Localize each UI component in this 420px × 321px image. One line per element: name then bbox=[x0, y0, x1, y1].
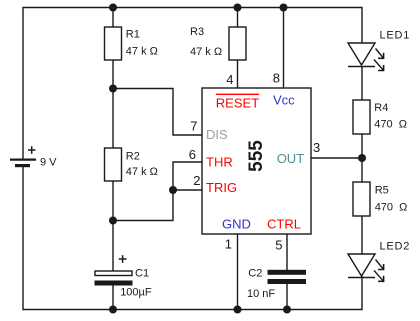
LED LED2 bbox=[348, 254, 384, 281]
svg-text:R1: R1 bbox=[126, 29, 140, 41]
node junction C1/bottom rail bbox=[109, 306, 117, 314]
resistor R3 bbox=[229, 27, 246, 60]
LED LED1 bbox=[348, 43, 384, 71]
svg-text:47 k Ω: 47 k Ω bbox=[126, 166, 158, 178]
svg-text:3: 3 bbox=[313, 140, 320, 155]
svg-text:LED2: LED2 bbox=[380, 241, 411, 253]
svg-text:8: 8 bbox=[273, 71, 280, 86]
svg-text:47 k Ω: 47 k Ω bbox=[190, 46, 222, 58]
node junction R1/R2/DIS bbox=[109, 85, 117, 93]
svg-text:R3: R3 bbox=[190, 26, 204, 38]
svg-text:100µF: 100µF bbox=[120, 287, 152, 299]
svg-text:7: 7 bbox=[190, 119, 197, 134]
svg-text:6: 6 bbox=[189, 147, 196, 162]
pin label RESET bbox=[216, 94, 259, 110]
wire LED1 to R4 bbox=[361, 67, 363, 101]
svg-text:4: 4 bbox=[226, 72, 233, 87]
wire R4 to R5 bbox=[361, 134, 363, 182]
node junction R2/C1/TRIG bbox=[109, 217, 117, 225]
wire THR/TRIG link bbox=[113, 162, 202, 221]
svg-text:470 Ω: 470 Ω bbox=[374, 119, 407, 131]
svg-text:R4: R4 bbox=[374, 102, 388, 114]
wire GND pin 1 bbox=[237, 234, 239, 310]
svg-text:470 Ω: 470 Ω bbox=[375, 202, 408, 214]
resistor R1 bbox=[105, 27, 122, 60]
svg-text:5: 5 bbox=[275, 238, 282, 253]
svg-text:9 V: 9 V bbox=[40, 157, 57, 169]
node junction top rail / R3 bbox=[234, 4, 242, 12]
svg-text:R5: R5 bbox=[375, 185, 389, 197]
wire R2 bottom to C1 bbox=[112, 181, 114, 271]
wire R3 bottom to pin 4 bbox=[237, 60, 239, 88]
svg-text:555: 555 bbox=[246, 140, 267, 172]
wire R5 to LED2 bbox=[361, 216, 363, 254]
svg-text:Vcc: Vcc bbox=[273, 93, 295, 108]
wire R3 top bbox=[237, 8, 239, 28]
svg-text:C1: C1 bbox=[135, 268, 149, 280]
wire R1 top bbox=[112, 8, 114, 28]
svg-text:OUT: OUT bbox=[277, 151, 305, 166]
node junction THR/TRIG bbox=[169, 186, 177, 194]
capacitor C2 bbox=[268, 270, 307, 284]
svg-text:47 k Ω: 47 k Ω bbox=[126, 46, 158, 58]
svg-text:RESET: RESET bbox=[216, 96, 259, 111]
resistor R5 bbox=[353, 182, 370, 216]
resistor R2 bbox=[105, 148, 122, 181]
op-amp U1 555 timer body bbox=[202, 88, 311, 234]
svg-text:C2: C2 bbox=[248, 268, 262, 280]
wire OUT pin 3 bbox=[311, 157, 362, 159]
node junction OUT/R4/R5 bbox=[358, 154, 366, 162]
svg-text:DIS: DIS bbox=[206, 127, 228, 142]
wire R1 bottom to node bbox=[112, 60, 114, 148]
node junction pin1/bottom rail bbox=[234, 306, 242, 314]
resistor R4 bbox=[353, 100, 370, 134]
node junction top rail / pin 8 bbox=[280, 4, 288, 12]
node junction C2/bottom rail bbox=[283, 306, 291, 314]
svg-text:LED1: LED1 bbox=[380, 30, 411, 42]
svg-text:GND: GND bbox=[222, 217, 251, 232]
svg-text:CTRL: CTRL bbox=[267, 217, 301, 232]
svg-text:1: 1 bbox=[225, 237, 232, 252]
capacitor C1 bbox=[95, 255, 133, 285]
node junction top rail / R1 bbox=[109, 4, 117, 12]
svg-text:TRIG: TRIG bbox=[206, 180, 237, 195]
svg-text:10 nF: 10 nF bbox=[247, 288, 275, 300]
wire top rail bbox=[23, 8, 362, 160]
wire DIS net bbox=[113, 89, 202, 136]
wire bottom rail bbox=[23, 166, 362, 310]
wire CTRL pin 5 bbox=[286, 234, 288, 270]
svg-text:2: 2 bbox=[193, 173, 200, 188]
wire C1 bottom bbox=[112, 286, 114, 310]
battery BT1 bbox=[10, 146, 36, 165]
wire C2 bottom bbox=[286, 284, 288, 310]
wire Vcc pin 8 bbox=[283, 8, 285, 89]
svg-text:THR: THR bbox=[206, 155, 233, 170]
svg-text:R2: R2 bbox=[126, 151, 140, 163]
